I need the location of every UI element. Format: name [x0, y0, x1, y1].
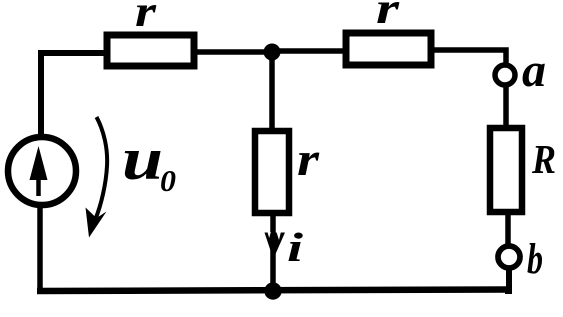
wire r1 to node — [194, 49, 272, 55]
wire bottom horizontal — [37, 290, 509, 292]
voltage arc arrowhead — [86, 208, 107, 238]
wire r2 to corner a — [431, 50, 506, 64]
wire b to bottom corner — [505, 267, 509, 291]
resistor r3 (middle) — [255, 131, 289, 213]
svg-text:r: r — [135, 0, 157, 36]
resistor r1 (top-left) — [107, 35, 194, 66]
svg-text:0: 0 — [160, 163, 176, 198]
current arrow i — [265, 232, 286, 260]
current source U — [8, 137, 76, 205]
svg-text:b: b — [527, 236, 543, 283]
wire left vertical lower — [37, 204, 43, 293]
svg-text:R: R — [531, 136, 556, 182]
svg-text:i: i — [287, 224, 304, 270]
wire node to r2 — [272, 48, 346, 54]
wire node top to r3 — [269, 55, 275, 131]
current source arrow — [30, 146, 48, 196]
resistor r2 (top-right) — [346, 33, 431, 65]
wire left vertical upper — [38, 50, 44, 137]
node junction bottom — [264, 282, 281, 299]
wire top-left horizontal — [38, 50, 108, 56]
svg-text:r: r — [297, 133, 321, 186]
terminal b — [498, 246, 520, 268]
svg-text:a: a — [522, 44, 546, 97]
terminal a — [495, 65, 515, 85]
wire r3 to bottom node — [270, 213, 276, 291]
wire R to b — [505, 212, 511, 248]
svg-text:r: r — [376, 0, 400, 33]
svg-text:u: u — [122, 126, 163, 192]
node junction top — [264, 44, 281, 61]
resistor R (right) — [490, 128, 522, 212]
voltage arc u0 — [96, 117, 108, 219]
wire a to R — [503, 85, 509, 128]
